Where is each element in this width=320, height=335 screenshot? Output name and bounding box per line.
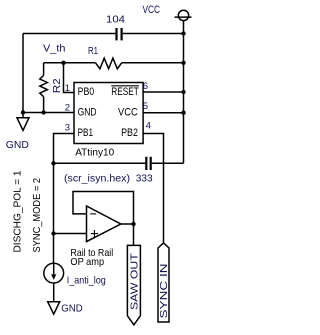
svg-text:VCC: VCC xyxy=(143,4,161,16)
svg-text:R2: R2 xyxy=(51,78,63,93)
svg-text:2: 2 xyxy=(65,103,70,114)
svg-text:GND: GND xyxy=(78,106,97,118)
svg-text:SAW OUT: SAW OUT xyxy=(130,253,141,310)
svg-text:104: 104 xyxy=(106,14,125,26)
svg-text:OP amp: OP amp xyxy=(70,256,104,268)
svg-text:V_th: V_th xyxy=(43,42,66,54)
svg-text:6: 6 xyxy=(143,81,148,92)
svg-text:PB2: PB2 xyxy=(121,127,138,139)
svg-text:4: 4 xyxy=(146,121,151,132)
svg-text:DISCHG_POL = 1: DISCHG_POL = 1 xyxy=(12,170,24,252)
svg-text:ATtiny10: ATtiny10 xyxy=(75,146,114,158)
svg-text:(scr_isyn.hex): (scr_isyn.hex) xyxy=(64,172,130,184)
svg-text:SYNC_MODE = 2: SYNC_MODE = 2 xyxy=(31,178,43,253)
svg-text:VCC: VCC xyxy=(118,106,138,118)
svg-text:RESET: RESET xyxy=(111,86,139,98)
svg-text:R1: R1 xyxy=(88,45,98,57)
svg-text:333: 333 xyxy=(136,172,153,184)
svg-text:1: 1 xyxy=(65,83,70,94)
svg-text:GND: GND xyxy=(6,139,29,151)
svg-text:SYNC IN: SYNC IN xyxy=(159,264,170,319)
svg-text:GND: GND xyxy=(61,303,83,315)
svg-text:3: 3 xyxy=(65,122,70,133)
svg-text:PB1: PB1 xyxy=(78,127,93,139)
svg-text:I_anti_log: I_anti_log xyxy=(67,275,106,287)
svg-text:5: 5 xyxy=(143,101,148,112)
svg-text:PB0: PB0 xyxy=(78,86,95,98)
